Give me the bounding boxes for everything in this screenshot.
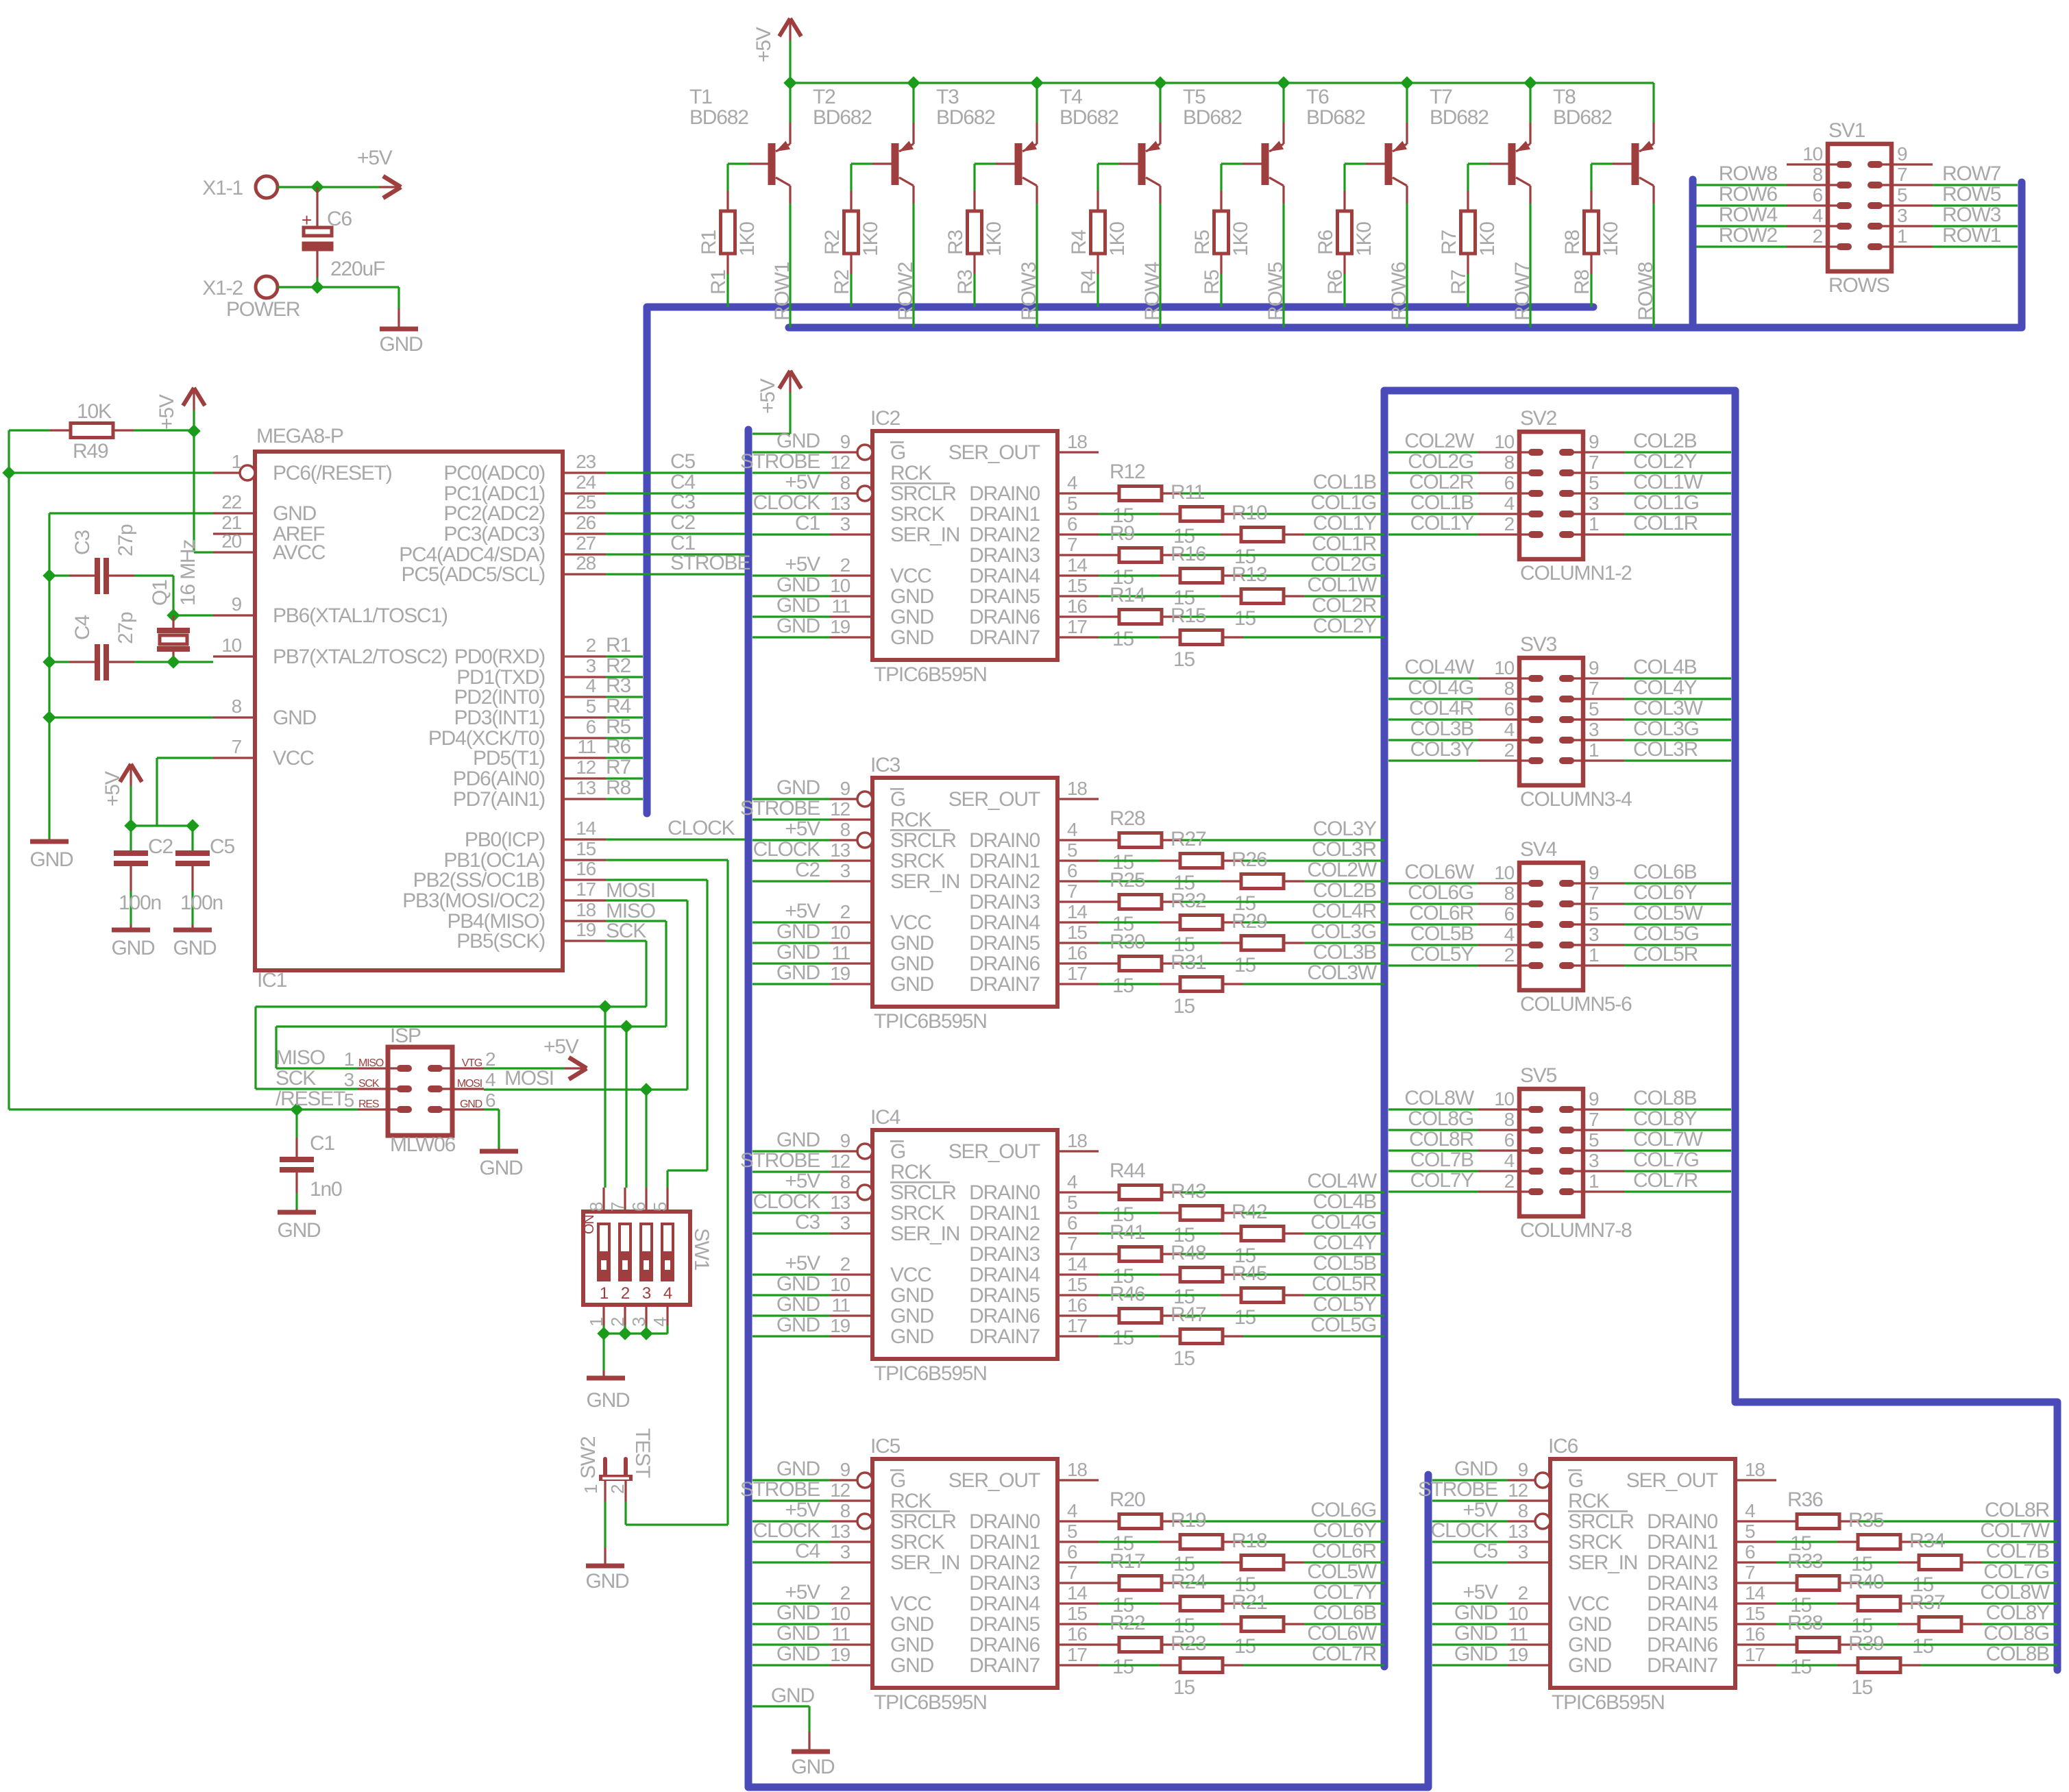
svg-text:+: + [302,210,311,230]
resistor R3 1K0 [968,211,982,254]
svg-text:VCC: VCC [890,1264,931,1286]
wire net ROW4 [1696,225,1787,227]
junction XTAL1 node [167,609,180,622]
svg-text:9: 9 [1589,431,1599,452]
svg-text:MOSI: MOSI [504,1067,554,1090]
SV1 pin 7 [1875,184,1933,186]
svg-text:10: 10 [1494,1088,1514,1109]
svg-text:DRAIN3: DRAIN3 [969,891,1040,913]
connector SV1 box [1828,144,1892,271]
wire IC3 left pin [752,921,830,923]
wire R49 right to +5V node [113,429,134,431]
svg-text:MOSI: MOSI [606,879,655,902]
connector ISP MLW06 box [388,1047,452,1136]
svg-text:1: 1 [586,1317,607,1327]
svg-text:DRAIN0: DRAIN0 [969,482,1040,505]
svg-text:15: 15 [1745,1603,1765,1624]
svg-text:9: 9 [232,593,242,615]
SW1 pin 5 (top) [666,1188,668,1212]
svg-text:6: 6 [1813,184,1823,206]
wire IC6 left pin [1432,1499,1508,1501]
IC5 pin 9 G [830,1479,857,1481]
svg-text:C2: C2 [795,859,820,881]
IC4 pin 6 DRAIN2 [1057,1232,1099,1234]
SV2 pin 2 [1478,533,1536,535]
svg-text:+5V: +5V [757,378,779,414]
svg-text:+5V: +5V [785,471,820,493]
wire VCC pin7 [157,757,213,759]
resistor R41 15 [1099,1253,1119,1255]
IC2 pin 19 GND [830,636,872,638]
svg-text:DRAIN2: DRAIN2 [969,870,1040,893]
IC4 pin 11 GND [830,1314,872,1316]
svg-text:SRCK: SRCK [890,1531,945,1554]
svg-text:IC6: IC6 [1548,1435,1578,1458]
svg-text:R28: R28 [1110,807,1145,830]
SW1 pin 4 (bottom) [666,1305,668,1325]
svg-text:SV5: SV5 [1520,1064,1557,1087]
IC4 pin 2 VCC [830,1273,872,1275]
svg-text:GND: GND [1568,1654,1612,1677]
svg-text:R13: R13 [1232,563,1267,586]
svg-text:RCK: RCK [890,462,932,484]
resistor R47 15 [1099,1335,1160,1337]
svg-text:POWER: POWER [226,298,300,321]
IC2 pin 15 DRAIN5 [1057,595,1099,597]
resistor R23 15 [1099,1664,1160,1666]
SW2 pin 1 wire to GND [604,1481,606,1501]
wire net C2 from IC1 pin 26 [606,532,745,535]
svg-text:11: 11 [1509,1623,1528,1645]
wire X1-1 to +5V [278,186,379,188]
wire SCK down to ISP pin3 [254,1007,256,1089]
svg-text:2: 2 [1813,225,1823,247]
junction +5V rail T5 [1277,76,1290,90]
svg-text:ROW1: ROW1 [1942,224,2001,247]
svg-text:R40: R40 [1848,1571,1884,1593]
svg-text:C3: C3 [795,1211,820,1233]
svg-text:2: 2 [621,1284,630,1303]
svg-text:R21: R21 [1232,1591,1267,1614]
svg-text:COL7Y: COL7Y [1313,1581,1378,1604]
svg-text:ROW2: ROW2 [1719,224,1778,247]
svg-text:18: 18 [1745,1459,1765,1480]
svg-text:2: 2 [840,901,850,922]
svg-text:R1: R1 [707,270,730,295]
svg-text:15: 15 [1851,1676,1872,1699]
svg-text:1: 1 [1589,513,1599,535]
svg-text:17: 17 [1067,1315,1087,1336]
svg-text:7: 7 [232,736,242,757]
junction +5V rail T1 [783,76,797,90]
svg-text:C2: C2 [148,835,173,858]
wire net COL6W [1388,882,1478,884]
svg-text:COL5Y: COL5Y [1313,1293,1378,1316]
wire net ROW5 [1933,204,2018,206]
svg-text:DRAIN3: DRAIN3 [1647,1572,1717,1595]
wire net R6 from IC1 pin 11 [606,757,643,759]
svg-text:COL4W: COL4W [1404,656,1475,678]
svg-text:1K0: 1K0 [1229,222,1252,256]
svg-text:R14: R14 [1110,584,1145,606]
svg-text:SRCLR: SRCLR [890,1181,956,1204]
IC5 pin 15 DRAIN5 [1057,1623,1099,1625]
svg-text:R37: R37 [1909,1591,1945,1614]
svg-text:5: 5 [1067,1521,1077,1542]
svg-text:COL6G: COL6G [1408,881,1473,904]
svg-text:GND: GND [273,502,317,525]
svg-text:DRAIN4: DRAIN4 [969,1593,1040,1615]
svg-text:T4: T4 [1060,86,1082,108]
resistor R14 15 [1099,615,1119,617]
SV2 pin 5 [1567,492,1624,494]
svg-text:BD682: BD682 [689,106,748,129]
svg-text:R43: R43 [1171,1180,1206,1203]
SV5 pin 9 [1567,1108,1624,1110]
wire IC2 left pin [752,471,830,474]
+5V arrow above IC2 [752,432,790,434]
svg-text:ROW8: ROW8 [1719,162,1778,185]
svg-text:DRAIN0: DRAIN0 [969,829,1040,852]
wire SW1 to GND [602,1334,604,1371]
IC6 pin 2 VCC [1508,1602,1550,1604]
svg-text:CLOCK: CLOCK [1431,1519,1499,1542]
svg-text:10: 10 [1494,657,1514,678]
svg-text:DRAIN5: DRAIN5 [969,1613,1040,1636]
svg-text:GND: GND [586,1389,630,1412]
svg-text:+5V: +5V [785,818,820,840]
svg-text:+5V: +5V [357,147,393,169]
junction C2 node [124,819,138,833]
svg-text:GND: GND [1454,1601,1498,1624]
svg-text:SV3: SV3 [1520,633,1557,656]
wire net COL2Y [1624,471,1731,474]
IC1 pin 3 PD1(TXD) [563,676,606,678]
svg-text:DRAIN2: DRAIN2 [969,1551,1040,1574]
wire IC6 left pin [1432,1541,1508,1543]
svg-text:100n: 100n [180,892,223,914]
IC2 pin 18 SER_OUT [1057,451,1099,453]
resistor R29 15 [1099,942,1221,944]
svg-text:R1: R1 [698,230,720,255]
svg-text:3: 3 [840,1212,850,1233]
switch SW2 TEST button [603,1459,607,1475]
ISP pin 4 MOSI [435,1088,484,1090]
junction node X1-2/C6 [310,280,324,294]
svg-text:PD2(INT0): PD2(INT0) [454,686,545,709]
IC5 pin 10 GND [830,1623,872,1625]
svg-text:10K: 10K [77,400,112,423]
svg-text:R5: R5 [1191,230,1214,255]
ground GND (IC1 left) [48,839,50,840]
svg-text:TPIC6B595N: TPIC6B595N [874,663,987,686]
svg-text:COL4B: COL4B [1313,1190,1377,1213]
svg-text:DRAIN6: DRAIN6 [969,606,1040,628]
svg-text:COL3R: COL3R [1312,838,1377,861]
svg-text:DRAIN6: DRAIN6 [1647,1634,1717,1656]
svg-text:COL4R: COL4R [1409,697,1474,720]
IC1 pin 24 PC1(ADC1) [563,492,606,494]
svg-text:SER_OUT: SER_OUT [948,1140,1040,1163]
svg-text:1: 1 [600,1284,609,1303]
resistor R25 15 [1099,900,1119,903]
svg-text:COL1Y: COL1Y [1410,512,1475,535]
IC3 pin 18 SER_OUT [1057,798,1099,800]
IC4 pin 3 SER_IN [830,1232,872,1234]
IC3 pin 11 GND [830,962,872,964]
svg-text:+5V: +5V [101,771,124,807]
svg-text:COL1G: COL1G [1633,491,1699,514]
resistor R38 15 [1776,1643,1797,1645]
svg-text:COL5G: COL5G [1310,1314,1376,1336]
IC2 pin 4 DRAIN0 [1057,492,1099,494]
svg-text:R7: R7 [606,756,631,778]
wire IC5 left pin [752,1602,830,1604]
wire net COL1B [1388,513,1478,515]
svg-text:COL7W: COL7W [1980,1519,2050,1542]
svg-text:COL5B: COL5B [1410,922,1474,945]
svg-text:19: 19 [576,919,596,940]
svg-text:ROW4: ROW4 [1719,204,1778,226]
svg-text:7: 7 [1067,1562,1077,1583]
IC3 pin 17 DRAIN7 [1057,983,1099,985]
svg-text:9: 9 [1518,1459,1528,1480]
wire net R5 from IC1 pin 6 [606,737,643,739]
svg-text:13: 13 [1508,1521,1528,1542]
svg-text:5: 5 [1897,184,1907,206]
svg-text:4: 4 [1745,1500,1755,1521]
svg-text:PC6(/RESET): PC6(/RESET) [273,462,392,484]
svg-text:GND: GND [890,1305,934,1327]
svg-text:PB3(MOSI/OC2): PB3(MOSI/OC2) [402,889,545,912]
svg-text:COL5Y: COL5Y [1410,943,1475,966]
IC5 pin 14 DRAIN4 [1057,1602,1099,1604]
wire net ROW7 [1933,184,2018,186]
svg-text:GND: GND [776,615,820,637]
IC mega8 IC1 MEGA8-P box [255,452,563,970]
svg-text:C1: C1 [795,512,820,535]
svg-text:27p: 27p [114,612,137,644]
resistor R20 15 [1099,1520,1119,1522]
svg-text:IC4: IC4 [870,1106,901,1129]
svg-text:X1-2: X1-2 [202,277,243,299]
svg-text:VCC: VCC [890,565,931,587]
svg-text:15: 15 [1067,1274,1087,1295]
wire net COL3R [1624,759,1731,761]
svg-text:DRAIN3: DRAIN3 [969,544,1040,567]
IC4 pin 10 GND [830,1294,872,1296]
svg-text:COL4G: COL4G [1310,1211,1376,1233]
svg-text:PB2(SS/OC1B): PB2(SS/OC1B) [413,869,546,892]
svg-text:R33: R33 [1787,1550,1823,1573]
svg-text:R3: R3 [606,674,631,697]
svg-text:DRAIN6: DRAIN6 [969,1305,1040,1327]
svg-text:R18: R18 [1232,1530,1267,1552]
svg-text:MLW06: MLW06 [390,1133,456,1156]
SV5 pin 2 [1478,1190,1536,1192]
svg-text:STROBE: STROBE [740,1149,820,1172]
svg-text:R19: R19 [1171,1509,1206,1532]
SW1 pin 1 (bottom) [602,1305,604,1325]
IC3 pin 8 SRCLR [830,839,857,841]
svg-text:10: 10 [830,922,850,943]
svg-text:DRAIN7: DRAIN7 [969,1325,1040,1348]
SV1 pin 1 [1875,245,1933,247]
resistor R37 15 [1776,1623,1898,1625]
svg-text:SRCK: SRCK [890,503,945,526]
svg-text:18: 18 [576,899,596,920]
wire net COL4B [1624,677,1731,679]
svg-text:+5V: +5V [785,900,820,922]
svg-text:C3: C3 [71,530,94,555]
resistor R22 15 [1099,1643,1119,1645]
svg-text:STROBE: STROBE [740,450,820,473]
svg-text:3: 3 [344,1069,354,1090]
wire IC4 left pin [752,1273,830,1275]
IC1 pin 13 PD7(AIN1) [563,798,606,800]
SW1 slider 1 [598,1224,609,1280]
svg-text:R8: R8 [606,776,631,799]
SW1 pin 8 (top) [602,1188,604,1212]
SV5 pin 10 [1478,1108,1536,1110]
IC2 pin 11 GND [830,615,872,617]
svg-text:C2: C2 [670,511,695,534]
ground GND (power) [380,327,418,332]
svg-text:10: 10 [1508,1603,1528,1624]
svg-text:12: 12 [830,1480,850,1501]
svg-text:15: 15 [576,838,596,859]
svg-text:15: 15 [1067,922,1087,943]
IC5 pin 17 DRAIN7 [1057,1664,1099,1666]
IC5 pin 16 DRAIN6 [1057,1643,1099,1645]
svg-text:1K0: 1K0 [1353,222,1375,256]
wire +5V rail to C2/C5 [131,824,193,826]
svg-text:+5V: +5V [1462,1499,1498,1521]
svg-text:DRAIN7: DRAIN7 [969,973,1040,996]
svg-text:SRCK: SRCK [890,850,945,872]
svg-text:IC5: IC5 [870,1435,901,1458]
svg-text:22: 22 [221,491,241,513]
IC4 pin 16 DRAIN6 [1057,1314,1099,1316]
svg-text:8: 8 [1813,164,1823,185]
IC1 pin 7 VCC [213,757,255,759]
svg-text:GND: GND [1454,1622,1498,1645]
resistor R1 1K0 [721,211,735,254]
svg-text:8: 8 [586,1202,607,1212]
svg-text:COL2R: COL2R [1409,471,1474,493]
svg-text:1K0: 1K0 [1600,222,1622,256]
svg-text:3: 3 [1897,205,1907,226]
svg-text:COL1Y: COL1Y [1313,512,1378,535]
svg-text:7: 7 [1067,1233,1077,1254]
IC1 pin 19 PB5(SCK) [563,940,606,942]
svg-text:GND: GND [776,574,820,596]
svg-text:BD682: BD682 [1060,106,1118,129]
svg-text:DRAIN2: DRAIN2 [1647,1551,1717,1574]
svg-text:3: 3 [1589,924,1599,945]
wire net ROW6 [1696,204,1787,206]
resistor R48 15 [1099,1273,1160,1275]
svg-text:PD7(AIN1): PD7(AIN1) [453,788,545,811]
svg-text:3: 3 [628,1317,649,1327]
svg-text:15: 15 [1112,1656,1134,1678]
wire IC2 left pin [752,574,830,576]
svg-text:COL7B: COL7B [1410,1149,1474,1171]
svg-text:R31: R31 [1171,951,1206,974]
svg-text:COL8B: COL8B [1633,1087,1697,1109]
svg-text:15: 15 [1067,1603,1087,1624]
SV2 pin 1 [1567,533,1624,535]
svg-text:+5V: +5V [543,1035,579,1058]
wire IC6 left pin [1432,1664,1508,1666]
resistor R31 15 [1099,983,1160,985]
resistor R10 15 [1099,533,1221,535]
wire net R7 from IC1 pin 12 [606,777,643,779]
IC shift register IC2 TPIC6B595N box [872,431,1057,660]
IC6 pin 19 GND [1508,1664,1550,1666]
wire net COL3Y [1388,759,1478,761]
wire IC3 left pin [752,859,830,861]
svg-text:ROW1: ROW1 [771,262,794,321]
wire IC5 left pin [752,1520,830,1522]
svg-text:6: 6 [1067,860,1077,881]
svg-text:PC0(ADC0): PC0(ADC0) [443,462,545,484]
svg-text:ROW2: ROW2 [894,262,917,321]
svg-text:CLOCK: CLOCK [753,491,821,514]
svg-text:ON: ON [582,1215,597,1234]
IC1 pin 26 PC3(ADC3) [563,532,606,535]
svg-text:9: 9 [840,1130,850,1151]
svg-text:GND: GND [776,776,820,799]
svg-text:10: 10 [1494,862,1514,883]
wire XTAL1 to pin 9 [173,614,213,616]
svg-text:+5V: +5V [785,1252,820,1275]
svg-text:2: 2 [840,554,850,576]
svg-text:19: 19 [830,1644,850,1665]
IC4 pin 12 RCK [830,1170,872,1173]
svg-text:GND: GND [890,973,934,996]
svg-text:2: 2 [1504,1170,1515,1192]
svg-text:T8: T8 [1553,86,1576,108]
wire net COL7Y [1388,1190,1478,1192]
IC6 pin 9 G [1508,1479,1535,1481]
svg-text:COL5W: COL5W [1633,902,1704,924]
svg-text:DRAIN0: DRAIN0 [969,1510,1040,1533]
svg-text:ISP: ISP [390,1024,421,1047]
wire +5V rail (emitters) [790,82,1654,84]
svg-text:16: 16 [1067,1623,1087,1645]
resistor R45 15 [1099,1294,1221,1296]
svg-text:18: 18 [1067,1130,1087,1151]
resistor R26 15 [1099,880,1221,882]
svg-text:COL4Y: COL4Y [1313,1231,1378,1254]
wire SW1 common bottom [604,1332,668,1334]
svg-text:11: 11 [831,596,850,617]
wire R4 to bus [1097,254,1099,274]
IC1 pin 14 PB0(ICP) [563,838,606,840]
svg-text:24: 24 [576,471,596,493]
svg-text:SRCLR: SRCLR [890,829,956,852]
wire net COL5Y [1388,964,1478,966]
svg-text:6: 6 [1504,698,1515,720]
IC1 pin 1 PC6(/RESET) [213,471,240,474]
SW1 pin 6 (top) [645,1188,647,1212]
svg-text:8: 8 [1504,678,1515,699]
svg-text:3: 3 [840,860,850,881]
svg-text:COL8R: COL8R [1985,1499,2050,1521]
svg-text:R34: R34 [1909,1530,1945,1552]
svg-text:C4: C4 [795,1540,820,1562]
